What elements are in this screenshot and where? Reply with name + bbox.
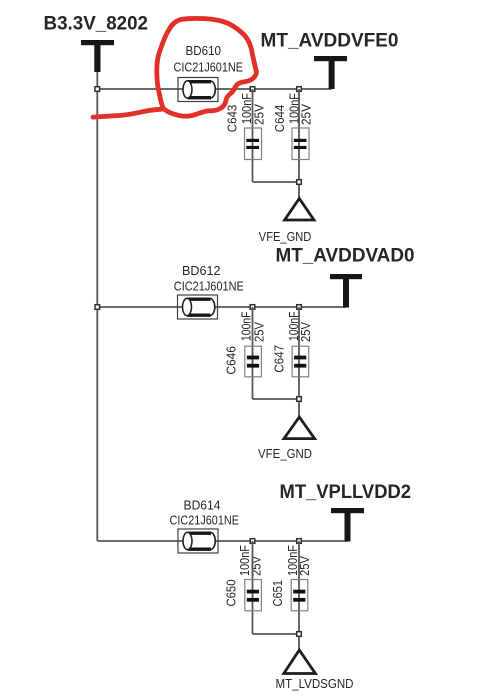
wire bottom horizontal (97, 540, 347, 542)
ground VFE_GND section2 (284, 417, 315, 439)
ferrite bead BD614 (178, 529, 218, 553)
power flag MT_AVDDVFE0 (314, 56, 347, 89)
node rail-middle junction (95, 305, 100, 310)
svg-text:CIC21J601NE: CIC21J601NE (170, 512, 240, 527)
svg-text:C644: C644 (272, 105, 287, 133)
capacitor C644 (292, 89, 309, 198)
svg-text:MT_AVDDVFE0: MT_AVDDVFE0 (261, 29, 399, 51)
svg-text:MT_VPLLVDD2: MT_VPLLVDD2 (280, 481, 412, 503)
capacitor C643 (245, 89, 262, 182)
ground MT_LVDSGND (284, 650, 316, 674)
node C650 top junction (250, 539, 255, 544)
wire section2 bottom (253, 398, 300, 400)
power flag B3.3V_8202 (81, 40, 114, 89)
svg-text:CIC21J601NE: CIC21J601NE (174, 278, 244, 293)
svg-text:25V: 25V (249, 556, 264, 576)
node C644 top junction (297, 87, 302, 92)
node rail-top junction (95, 87, 100, 92)
capacitor C646 (245, 307, 262, 399)
svg-text:C646: C646 (224, 346, 239, 375)
node C651 top junction (297, 539, 302, 544)
svg-text:MT_AVDDVAD0: MT_AVDDVAD0 (276, 245, 415, 267)
svg-text:C647: C647 (271, 345, 286, 373)
ground VFE_GND section1 (285, 199, 314, 221)
node section2 ground junction (297, 397, 302, 402)
svg-text:VFE_GND: VFE_GND (258, 446, 312, 461)
svg-text:MT_LVDSGND: MT_LVDSGND (276, 676, 354, 691)
svg-text:BD610: BD610 (186, 43, 222, 58)
capacitor C647 (292, 307, 309, 416)
wire left vertical rail (96, 89, 98, 542)
capacitor C650 (245, 541, 262, 634)
svg-text:C650: C650 (224, 580, 239, 607)
svg-text:C643: C643 (225, 105, 240, 133)
capacitor C651 (291, 541, 308, 649)
ferrite bead BD612 (178, 295, 218, 319)
wire middle horizontal (97, 306, 346, 308)
wire section1 bottom (253, 181, 300, 183)
node section1 ground junction (297, 180, 302, 185)
svg-text:25V: 25V (252, 322, 267, 342)
svg-text:25V: 25V (298, 322, 313, 342)
node C646 top junction (250, 305, 255, 310)
red annotation circle around BD610 (93, 18, 256, 117)
node C647 top junction (297, 305, 302, 310)
power flag MT_VPLLVDD2 (331, 508, 364, 542)
svg-text:25V: 25V (251, 104, 266, 125)
svg-text:C651: C651 (270, 580, 285, 607)
svg-text:BD614: BD614 (184, 497, 221, 512)
wire top horizontal (97, 88, 331, 90)
wire section3 bottom (253, 633, 300, 635)
svg-text:VFE_GND: VFE_GND (259, 229, 312, 244)
svg-text:25V: 25V (299, 104, 314, 125)
node C643 top junction (250, 87, 255, 92)
svg-text:BD612: BD612 (182, 263, 221, 278)
svg-text:B3.3V_8202: B3.3V_8202 (44, 13, 149, 35)
ferrite bead BD610 (178, 78, 218, 102)
power flag MT_AVDDVAD0 (330, 274, 362, 308)
svg-text:CIC21J601NE: CIC21J601NE (174, 60, 244, 75)
node section3 ground junction (297, 632, 302, 637)
